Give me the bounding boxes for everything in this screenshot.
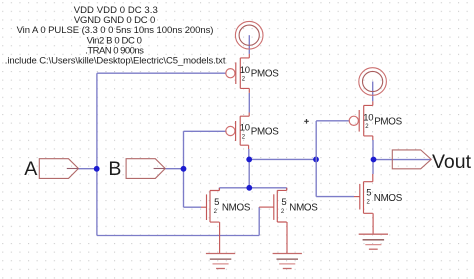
svg-text:10: 10 [240, 65, 250, 76]
node inverter input junction dot [313, 157, 319, 163]
vdd symbol VDD1 [235, 21, 263, 49]
svg-text:NMOS: NMOS [222, 203, 251, 214]
plus mark decoration near inverter input [304, 119, 309, 124]
node B junction dot [181, 166, 187, 172]
nmos M6 (inverter pull-down) [354, 174, 373, 234]
svg-text:PMOS: PMOS [374, 116, 402, 127]
svg-text:10: 10 [240, 123, 250, 134]
nmos M5 (NAND pull-down right) [259, 188, 287, 254]
svg-text:A: A [24, 158, 37, 180]
svg-text:PMOS: PMOS [251, 69, 279, 80]
wire M1 drain to M2 source [248, 93, 250, 113]
pmos M2 value 10/2 label [240, 123, 279, 141]
svg-text:.include C:\Users\kille\Deskto: .include C:\Users\kille\Desktop\Electric… [5, 55, 226, 66]
node NAND-out junction dot upper [246, 157, 252, 163]
pmos M1 value 10/2 label [240, 65, 279, 83]
nmos M5 value 5/2 label [281, 197, 318, 215]
pmos M1 (top of NAND stack) [226, 54, 250, 93]
ground GND2 (below M5) [273, 254, 302, 269]
node NAND-out junction dot lower [246, 185, 252, 191]
spice netlist text block [5, 5, 226, 66]
wire inverter input (vertical, to M3 gate bubble, to M6 gate) [316, 121, 354, 197]
wire VDD1 to M1 source [248, 35, 250, 54]
ground GND1 (below M4) [206, 254, 235, 269]
wire inverter output node (M3 drain, M6 drain, to Vout port tip) [373, 140, 431, 174]
wire net B (vertical trunk, rail to M2 gate, rail to M4 gate) [165, 131, 225, 207]
svg-text:Vout: Vout [432, 151, 472, 173]
svg-text:NMOS: NMOS [374, 193, 403, 204]
pmos M3 value 10/2 label [363, 113, 402, 131]
port A (input connector) [39, 159, 78, 179]
pmos M2 (bottom of NAND stack) [226, 113, 249, 150]
svg-text:5: 5 [366, 188, 371, 199]
node A junction dot [94, 166, 100, 172]
node Vout junction dot [371, 157, 377, 163]
ground GND3 (below M6) [359, 234, 388, 249]
nmos M6 value 5/2 label [366, 188, 403, 206]
svg-text:10: 10 [363, 113, 373, 124]
svg-text:5: 5 [281, 197, 286, 208]
svg-text:NMOS: NMOS [289, 202, 318, 213]
svg-text:PMOS: PMOS [251, 127, 279, 138]
port Vout (output connector) [392, 150, 431, 169]
svg-text:B: B [108, 158, 121, 180]
port B (input connector) [126, 159, 165, 179]
vdd symbol VDD2 [359, 68, 387, 96]
nmos M4 (NAND pull-down left) [201, 188, 220, 254]
pmos M3 (inverter pull-up) [349, 101, 373, 140]
nmos M4 value 5/2 label [214, 197, 251, 215]
wire net A (vertical trunk, top rail to M1 gate, bottom rail to M5 gate) [78, 73, 259, 235]
svg-text:5: 5 [214, 197, 219, 208]
wire NAND output node (M2 drain, rail to inverter, down to NMOS rail) [219, 149, 316, 190]
wire VDD2 to M3 source [372, 82, 374, 102]
